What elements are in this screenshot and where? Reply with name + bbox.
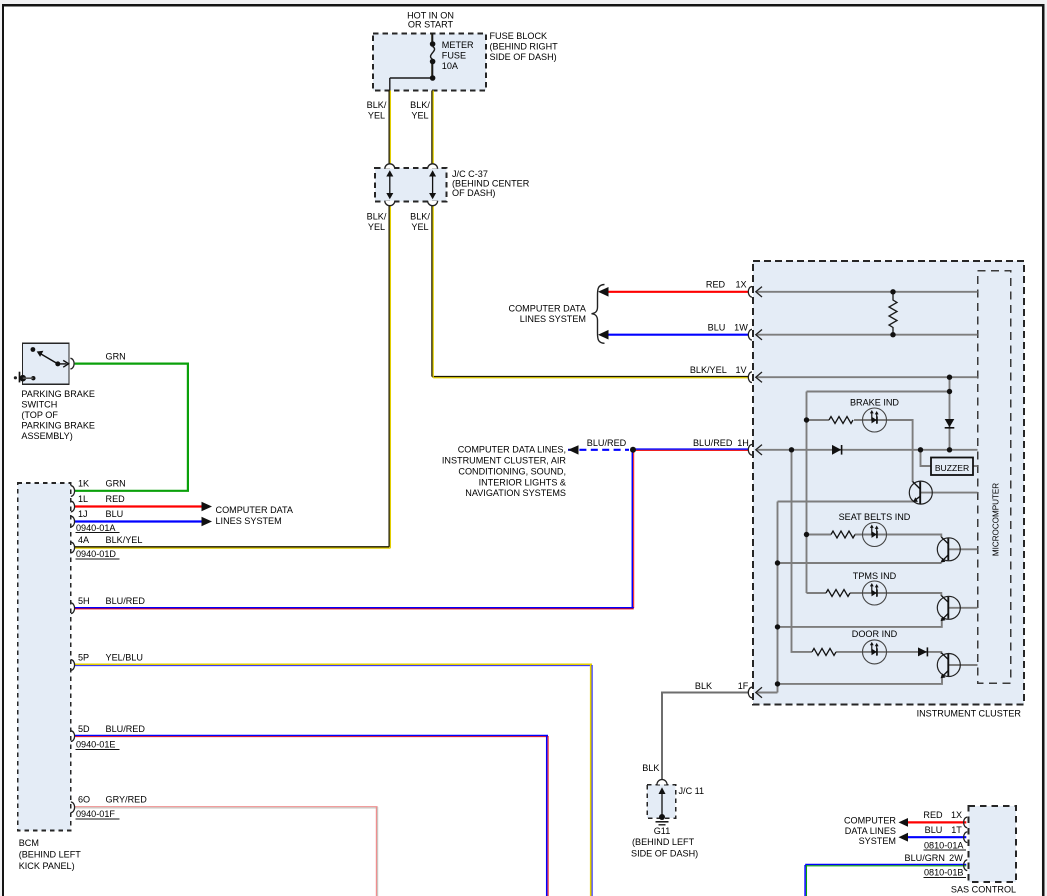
svg-text:COMPUTER DATA LINES,: COMPUTER DATA LINES, [458,445,566,455]
svg-text:0940-01D: 0940-01D [76,549,116,559]
svg-text:BLU: BLU [106,509,124,519]
svg-text:RED: RED [923,810,943,820]
svg-text:1F: 1F [738,681,749,691]
svg-text:OF DASH): OF DASH) [452,188,495,198]
svg-text:NAVIGATION SYSTEMS: NAVIGATION SYSTEMS [465,488,566,498]
svg-text:GRY/RED: GRY/RED [106,794,148,804]
svg-text:SAS CONTROL: SAS CONTROL [951,884,1016,894]
svg-text:TPMS IND: TPMS IND [853,571,897,581]
svg-text:BLK/YEL: BLK/YEL [690,365,727,375]
svg-text:COMPUTER DATA: COMPUTER DATA [216,505,294,515]
svg-text:PARKING BRAKE: PARKING BRAKE [21,389,95,399]
svg-text:BLU: BLU [708,323,726,333]
svg-text:0940-01E: 0940-01E [76,740,115,750]
svg-text:1L: 1L [78,494,88,504]
svg-text:J/C 11: J/C 11 [679,786,705,796]
svg-text:0810-01B: 0810-01B [924,868,963,878]
svg-text:SIDE OF DASH): SIDE OF DASH) [631,848,698,858]
svg-text:FUSE BLOCK: FUSE BLOCK [490,31,548,41]
svg-text:COMPUTER DATA: COMPUTER DATA [509,303,587,313]
svg-text:ASSEMBLY): ASSEMBLY) [21,431,72,441]
svg-text:SYSTEM: SYSTEM [859,836,896,846]
svg-text:BLU/RED: BLU/RED [106,724,146,734]
svg-text:INSTRUMENT CLUSTER: INSTRUMENT CLUSTER [917,709,1022,719]
svg-text:DATA LINES: DATA LINES [845,826,896,836]
svg-text:4A: 4A [78,535,90,545]
svg-text:10A: 10A [442,61,459,71]
svg-text:DOOR IND: DOOR IND [852,629,898,639]
svg-text:1X: 1X [735,280,746,290]
svg-text:2W: 2W [949,853,963,863]
svg-text:J/C C-37: J/C C-37 [452,169,488,179]
svg-text:RED: RED [106,494,126,504]
svg-text:YEL: YEL [368,222,385,232]
svg-text:BLK/: BLK/ [367,100,387,110]
svg-text:G11: G11 [654,826,671,836]
svg-text:(BEHIND CENTER: (BEHIND CENTER [452,179,530,189]
svg-text:1J: 1J [78,509,88,519]
svg-text:FUSE: FUSE [442,50,466,60]
svg-text:5H: 5H [78,596,90,606]
svg-text:YEL: YEL [411,222,428,232]
svg-text:YEL/BLU: YEL/BLU [106,653,143,663]
svg-text:RED: RED [706,280,726,290]
svg-text:OR START: OR START [408,20,454,30]
svg-text:(BEHIND LEFT: (BEHIND LEFT [19,849,82,859]
svg-text:BLK: BLK [695,681,712,691]
svg-text:0810-01A: 0810-01A [924,840,964,850]
svg-text:BRAKE IND: BRAKE IND [850,398,899,408]
svg-text:(BEHIND RIGHT: (BEHIND RIGHT [490,42,559,52]
svg-text:BLK: BLK [642,763,659,773]
svg-text:YEL: YEL [411,110,428,120]
svg-text:COMPUTER: COMPUTER [844,816,896,826]
svg-text:5P: 5P [78,653,89,663]
svg-text:0940-01F: 0940-01F [76,809,115,819]
svg-text:LINES SYSTEM: LINES SYSTEM [216,516,282,526]
svg-text:(BEHIND LEFT: (BEHIND LEFT [632,837,695,847]
svg-text:BUZZER: BUZZER [935,463,969,473]
svg-text:1H: 1H [737,438,749,448]
svg-text:6O: 6O [78,794,90,804]
svg-text:METER: METER [442,40,474,50]
svg-text:0940-01A: 0940-01A [76,523,116,533]
svg-text:CONDITIONING, SOUND,: CONDITIONING, SOUND, [458,467,566,477]
svg-text:1V: 1V [735,365,747,375]
svg-text:MICROCOMPUTER: MICROCOMPUTER [991,483,1000,556]
svg-text:GRN: GRN [106,479,126,489]
svg-text:SWITCH: SWITCH [21,400,57,410]
svg-text:BLU/GRN: BLU/GRN [905,853,945,863]
svg-text:BLK/: BLK/ [410,100,430,110]
svg-text:1K: 1K [78,479,89,489]
svg-text:(TOP OF: (TOP OF [21,410,58,420]
svg-text:INTERIOR LIGHTS &: INTERIOR LIGHTS & [479,478,566,488]
svg-text:BLK/: BLK/ [367,212,387,222]
svg-text:LINES SYSTEM: LINES SYSTEM [520,314,586,324]
svg-text:BLU/RED: BLU/RED [693,438,733,448]
svg-text:5D: 5D [78,724,90,734]
svg-text:BLK/: BLK/ [410,212,430,222]
svg-text:GRN: GRN [106,351,126,361]
svg-text:SIDE OF DASH): SIDE OF DASH) [490,52,557,62]
svg-text:1X: 1X [951,810,962,820]
svg-text:BCM: BCM [19,838,39,848]
svg-text:1T: 1T [951,825,962,835]
svg-text:1W: 1W [734,323,748,333]
svg-text:PARKING BRAKE: PARKING BRAKE [21,420,95,430]
svg-text:BLK/YEL: BLK/YEL [106,535,143,545]
svg-text:BLU: BLU [925,825,943,835]
svg-text:BLU/RED: BLU/RED [106,596,146,606]
svg-text:YEL: YEL [368,110,385,120]
svg-text:SEAT BELTS IND: SEAT BELTS IND [839,512,911,522]
svg-text:KICK PANEL): KICK PANEL) [19,861,75,871]
svg-text:INSTRUMENT CLUSTER, AIR: INSTRUMENT CLUSTER, AIR [442,455,567,465]
svg-text:BLU/RED: BLU/RED [587,438,627,448]
